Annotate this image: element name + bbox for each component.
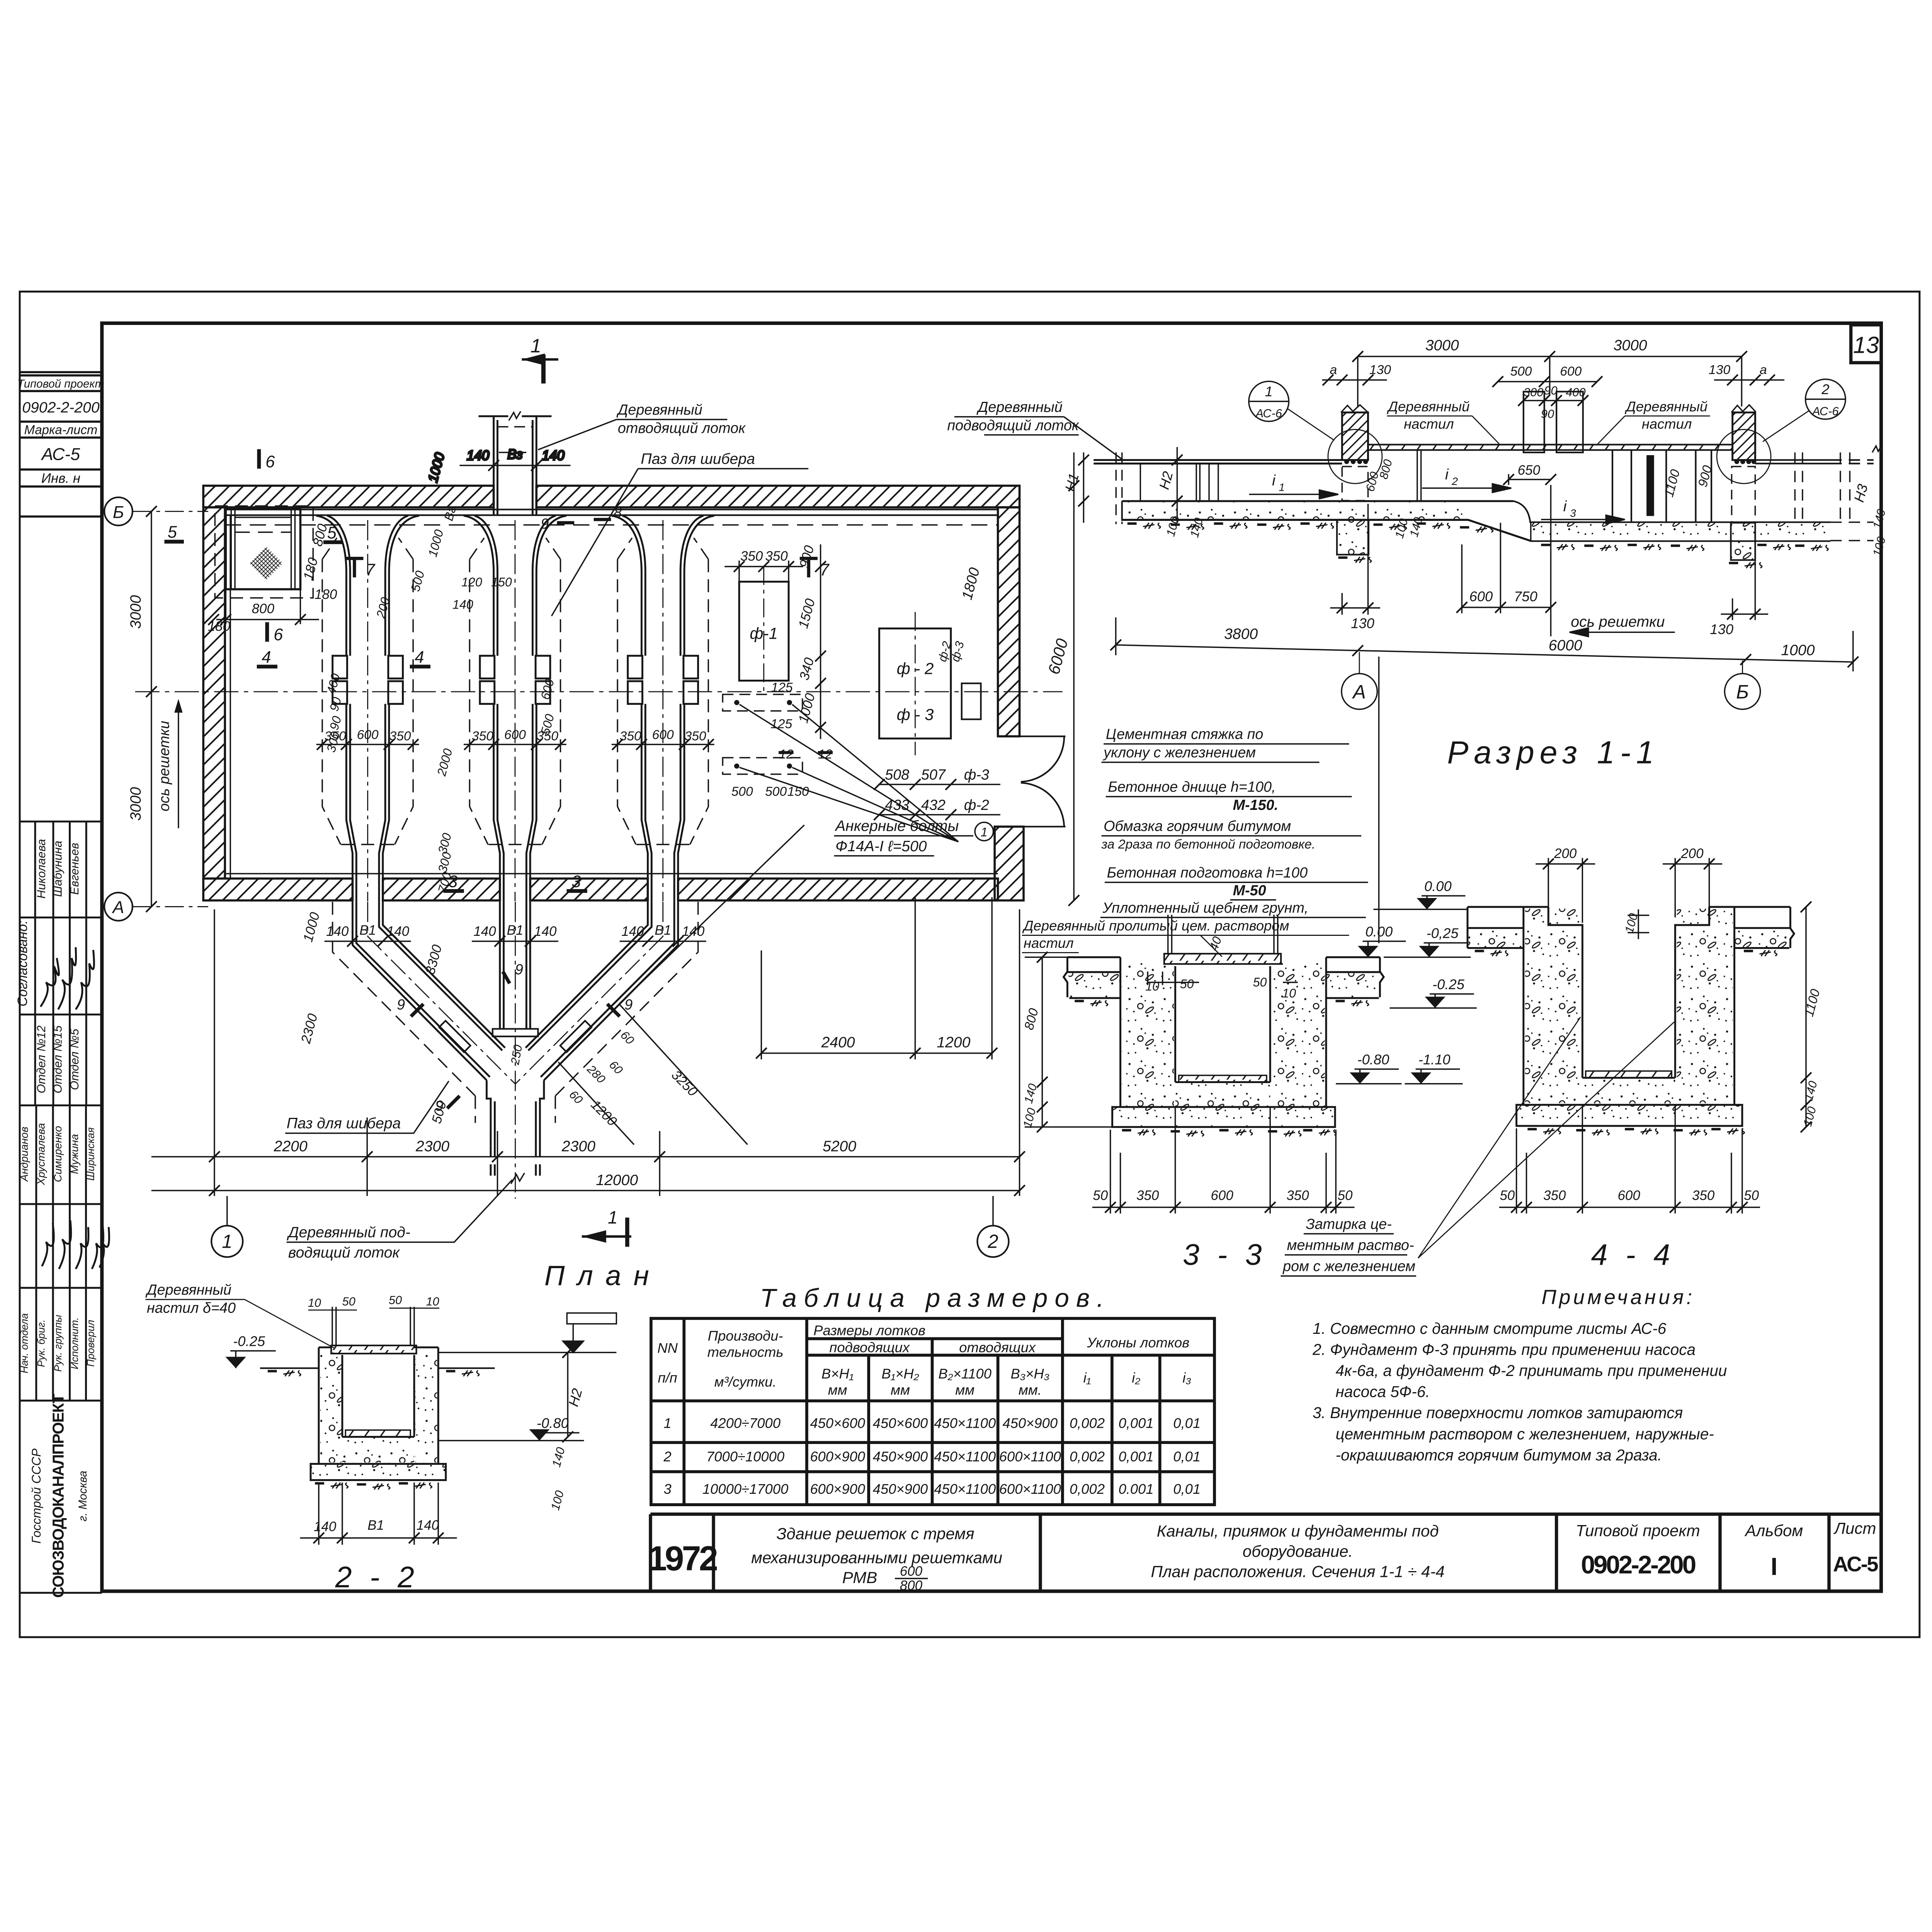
svg-text:i₂: i₂ [1132, 1370, 1140, 1386]
svg-text:0,001: 0,001 [1119, 1415, 1154, 1431]
circled 1 bottom left [211, 1196, 243, 1257]
floor screed [1582, 1077, 1675, 1079]
sidebar signature table (rotated) [20, 821, 102, 1593]
svg-text:600×1100: 600×1100 [999, 1481, 1061, 1497]
svg-text:140: 140 [621, 924, 644, 939]
callout 2/АС-6 [1763, 379, 1845, 442]
svg-text:Альбом: Альбом [1744, 1521, 1803, 1539]
svg-text:130: 130 [1710, 621, 1733, 637]
U walls [1121, 957, 1326, 1107]
svg-text:3. Внутренние поверхности: 3. Внутренние поверхности лотков затираю… [1313, 1404, 1683, 1422]
svg-text:450×900: 450×900 [1003, 1415, 1058, 1431]
svg-text:тельность: тельность [707, 1344, 784, 1360]
svg-text:6: 6 [274, 626, 283, 644]
Деревянный настил labels [1386, 399, 1710, 444]
svg-text:п/п: п/п [658, 1370, 677, 1386]
svg-text:650: 650 [1518, 463, 1541, 478]
floor screed [1175, 1081, 1270, 1083]
svg-text:подводящих: подводящих [829, 1340, 910, 1355]
svg-text:уклону с железнением: уклону с железнением [1102, 745, 1256, 761]
sidebar issuer block [29, 1394, 89, 1598]
svg-text:600: 600 [1560, 364, 1582, 379]
Деревянный пролитый label [1022, 918, 1349, 957]
svg-text:ментным раство-: ментным раство- [1287, 1237, 1414, 1253]
bottom wall segments [203, 879, 352, 901]
left arm outer wall [352, 902, 490, 1080]
bottom dimension chains [151, 909, 1020, 1196]
svg-text:12000: 12000 [596, 1172, 638, 1189]
svg-text:3: 3 [663, 1481, 671, 1497]
svg-text:1: 1 [222, 1231, 232, 1252]
right arm inner wall [526, 902, 651, 1051]
svg-text:450×1100: 450×1100 [934, 1415, 996, 1431]
svg-text:В1: В1 [655, 923, 671, 938]
svg-text:140: 140 [467, 448, 490, 463]
svg-text:мм: мм [955, 1382, 975, 1398]
svg-text:1: 1 [1265, 383, 1273, 399]
svg-text:3: 3 [1570, 507, 1576, 519]
svg-text:4: 4 [415, 648, 424, 667]
svg-text:7: 7 [366, 561, 376, 579]
svg-text:13: 13 [1853, 332, 1879, 358]
svg-text:9: 9 [541, 516, 549, 532]
Деревянный отводящий лоток label top [538, 402, 746, 450]
svg-text:Б: Б [1736, 681, 1749, 703]
svg-text:8: 8 [614, 505, 622, 521]
svg-text:Каналы, приямок и фундамент: Каналы, приямок и фундаменты под [1157, 1522, 1439, 1540]
svg-text:Деревянный: Деревянный [1624, 399, 1708, 415]
svg-text:600: 600 [1469, 588, 1493, 604]
svg-text:-0.25: -0.25 [1432, 976, 1465, 992]
svg-text:АС-5: АС-5 [1833, 1552, 1878, 1576]
bottom chain 2-2 [300, 1483, 457, 1545]
bottom chain 4-4 [1499, 1105, 1760, 1214]
svg-text:2200: 2200 [274, 1138, 308, 1155]
svg-text:В₁×Н₂: В₁×Н₂ [881, 1366, 919, 1381]
svg-text:0902-2-200: 0902-2-200 [1581, 1550, 1696, 1579]
подводящий лоток label left [947, 399, 1122, 459]
foundation F-1 [724, 561, 803, 696]
svg-text:Вз: Вз [507, 447, 523, 462]
door opening arcs in right wall [1020, 736, 1066, 827]
svg-text:9: 9 [435, 1098, 444, 1114]
svg-text:7: 7 [820, 561, 830, 579]
svg-text:450×900: 450×900 [873, 1481, 928, 1497]
svg-text:Ширинская: Ширинская [85, 1128, 96, 1181]
sidebar top stamp boxes [20, 372, 102, 517]
svg-text:Деревянный: Деревянный [145, 1282, 231, 1298]
notes block left of Разрез [1100, 726, 1368, 918]
inlet channel along top wall [225, 510, 998, 525]
wall pillar 2 [1717, 405, 1771, 560]
left approach channel [1094, 452, 1514, 524]
sheet number box 13 [1851, 325, 1881, 363]
svg-text:Николаева: Николаева [34, 839, 48, 898]
svg-text:450×1100: 450×1100 [934, 1449, 996, 1464]
svg-text:М-150.: М-150. [1233, 797, 1279, 813]
slab [1517, 1105, 1742, 1126]
ground lines [260, 1367, 495, 1369]
right wall corner piece [995, 827, 1024, 900]
svg-text:АС-6: АС-6 [1255, 406, 1282, 420]
svg-text:-0.80: -0.80 [1357, 1051, 1389, 1067]
svg-text:настил: настил [1642, 416, 1692, 432]
svg-text:350: 350 [685, 729, 706, 743]
svg-text:350: 350 [1543, 1188, 1566, 1203]
right arm outer wall [541, 902, 678, 1080]
Паз для шибера label (lower) [285, 1081, 449, 1133]
svg-text:7000÷10000: 7000÷10000 [706, 1449, 784, 1464]
svg-text:10: 10 [1282, 986, 1296, 1000]
svg-text:ф-2: ф-2 [964, 797, 989, 813]
bottom chain 3-3 [1092, 1107, 1355, 1213]
svg-text:Нач. отдела: Нач. отдела [19, 1313, 30, 1374]
concrete band under left channel [1122, 501, 1830, 541]
svg-text:0,01: 0,01 [1173, 1449, 1201, 1464]
misc small dims around channels [324, 505, 557, 894]
grate pit box top-left [215, 506, 313, 598]
svg-text:Бетонное днище h=100,: Бетонное днище h=100, [1108, 779, 1276, 795]
svg-text:125: 125 [771, 680, 793, 695]
svg-text:140: 140 [452, 597, 473, 611]
svg-text:Деревянный: Деревянный [1386, 399, 1469, 415]
svg-text:140: 140 [534, 924, 557, 939]
130 dims bottom [1330, 504, 1768, 620]
3-3 dims [1025, 952, 1298, 1132]
svg-text:50: 50 [1338, 1188, 1353, 1203]
svg-text:М-50: М-50 [1233, 883, 1266, 899]
svg-text:м³/сутки.: м³/сутки. [714, 1374, 777, 1389]
svg-text:2: 2 [1821, 381, 1829, 397]
svg-text:1: 1 [1279, 481, 1285, 493]
svg-text:0,01: 0,01 [1173, 1481, 1201, 1497]
perpendicular tick bars (section 9 marks) [411, 1004, 620, 1016]
svg-text:140: 140 [417, 1518, 439, 1533]
leader lines Затирка [1418, 1017, 1674, 1258]
500/600 and 300/90/400 dims [1492, 376, 1602, 406]
svg-text:Деревянный: Деревянный [616, 402, 702, 418]
svg-text:ось решетки: ось решетки [156, 721, 172, 811]
H2 dim right [562, 1347, 573, 1442]
axis circle Б left [104, 497, 208, 526]
svg-text:50: 50 [1093, 1188, 1108, 1203]
svg-text:Отдел №12: Отдел №12 [34, 1026, 48, 1094]
svg-text:3000: 3000 [128, 595, 144, 629]
svg-text:отводящих: отводящих [959, 1340, 1036, 1355]
svg-text:механизированными решетками: механизированными решетками [751, 1548, 1002, 1566]
svg-text:5200: 5200 [823, 1138, 856, 1155]
left arm inner wall [379, 902, 505, 1051]
svg-text:350: 350 [1286, 1188, 1309, 1203]
svg-text:Здание решеток с тремя: Здание решеток с тремя [777, 1525, 975, 1543]
dashed outer outline of funnel [333, 902, 698, 1096]
2-2 labels [145, 1282, 334, 1348]
svg-text:ром с железнением: ром с железнением [1282, 1259, 1415, 1275]
svg-text:подводящий лоток: подводящий лоток [947, 418, 1080, 434]
grate pit dims [208, 522, 337, 634]
svg-text:4 - 4: 4 - 4 [1591, 1238, 1675, 1272]
svg-text:а: а [1330, 363, 1337, 377]
svg-text:3800: 3800 [1224, 626, 1258, 643]
separator vertical line [1378, 656, 1380, 943]
svg-text:за 2раза по бетонной подготовк: за 2раза по бетонной подготовке. [1101, 837, 1316, 852]
svg-text:50: 50 [1500, 1188, 1515, 1203]
svg-text:Типовой проект: Типовой проект [17, 378, 104, 390]
svg-text:800: 800 [900, 1578, 923, 1593]
svg-text:Производи-: Производи- [708, 1328, 783, 1344]
svg-text:508: 508 [885, 767, 909, 783]
bottom dims 600/750 [1456, 485, 1556, 636]
Анкерные болты label [834, 818, 993, 856]
deck [331, 1345, 416, 1354]
svg-text:140: 140 [314, 1519, 337, 1534]
grand dim line [1111, 617, 1859, 672]
svg-text:1. Совместно с данным смо: 1. Совместно с данным смотрите листы АС-… [1313, 1320, 1667, 1337]
svg-text:оборудование.: оборудование. [1243, 1542, 1353, 1560]
grate posts above deck [1524, 392, 1583, 452]
svg-text:350: 350 [472, 729, 493, 743]
svg-text:50: 50 [1180, 977, 1194, 991]
svg-text:4200÷7000: 4200÷7000 [710, 1415, 781, 1431]
svg-text:600: 600 [1211, 1188, 1233, 1203]
svg-text:2: 2 [663, 1449, 671, 1464]
svg-text:0,002: 0,002 [1070, 1415, 1105, 1431]
funnel below plan [333, 902, 698, 1199]
svg-text:-0.80: -0.80 [537, 1415, 569, 1431]
svg-text:Евгеньев: Евгеньев [68, 843, 81, 895]
svg-text:50: 50 [342, 1294, 355, 1308]
right berm [1326, 957, 1384, 998]
svg-text:3000: 3000 [128, 787, 144, 821]
svg-text:отводящий лоток: отводящий лоток [618, 420, 746, 437]
svg-text:9: 9 [515, 961, 523, 978]
ось решетки label [1570, 614, 1675, 636]
main drawing frame [102, 323, 1881, 1591]
Паз для шибера label (upper) [551, 451, 808, 616]
svg-text:i: i [1445, 466, 1449, 483]
svg-text:Инв. н: Инв. н [41, 471, 80, 486]
cross bars at middle channel bottom [493, 1029, 538, 1037]
svg-text:Примечания:: Примечания: [1541, 1286, 1695, 1309]
svg-text:-0,25: -0,25 [1427, 925, 1459, 941]
slab [1112, 1107, 1335, 1127]
svg-text:0,002: 0,002 [1070, 1449, 1105, 1464]
wall pillar 1 [1328, 405, 1382, 555]
svg-text:10000÷17000: 10000÷17000 [702, 1481, 788, 1497]
svg-text:Типовой проект: Типовой проект [1576, 1521, 1700, 1539]
slab [311, 1464, 446, 1480]
Деревянный подводящий лоток label bottom [287, 1180, 512, 1261]
svg-text:3000: 3000 [1614, 337, 1647, 354]
svg-text:12: 12 [818, 747, 833, 762]
svg-text:I: I [1770, 1553, 1777, 1580]
svg-text:ф - 2: ф - 2 [897, 660, 934, 678]
svg-text:ф - 3: ф - 3 [897, 706, 934, 724]
svg-text:Отдел №5: Отдел №5 [68, 1029, 81, 1090]
svg-text:120: 120 [461, 575, 482, 589]
svg-text:12: 12 [779, 747, 794, 762]
svg-text:В1: В1 [359, 923, 376, 938]
svg-text:i₃: i₃ [1182, 1370, 1191, 1386]
svg-text:План расположения. Сечения: План расположения. Сечения 1-1 ÷ 4-4 [1151, 1563, 1444, 1581]
svg-text:600: 600 [504, 728, 526, 742]
funnel section marks 9 [397, 961, 633, 1114]
slanted shiber gates on arms [439, 1021, 470, 1052]
svg-text:2 - 2: 2 - 2 [335, 1561, 419, 1594]
svg-text:Уплотненный щебнем грунт,: Уплотненный щебнем грунт, [1102, 900, 1308, 916]
ось решетки vertical label [156, 701, 182, 828]
H dims left [1078, 447, 1182, 523]
funnel diagonal dim lines [558, 825, 804, 1145]
right outlet channel [1755, 446, 1881, 541]
650 dim [1503, 474, 1556, 485]
svg-text:2300: 2300 [561, 1138, 595, 1155]
svg-text:450×600: 450×600 [873, 1415, 928, 1431]
svg-text:1000: 1000 [1781, 642, 1815, 659]
svg-text:600: 600 [900, 1564, 923, 1579]
plan walls hatched: top wall [203, 486, 1024, 900]
svg-text:А: А [112, 898, 124, 917]
svg-text:130: 130 [1351, 616, 1374, 631]
0.00 marker right of 3-3 [1358, 923, 1406, 957]
svg-text:432: 432 [921, 797, 946, 813]
svg-text:мм.: мм. [1019, 1382, 1042, 1398]
plan 6000-dim extension vertical [1073, 452, 1075, 901]
svg-text:NN: NN [657, 1340, 678, 1356]
svg-text:В1: В1 [507, 923, 524, 938]
svg-text:Анкерные болты: Анкерные болты [835, 818, 959, 835]
svg-text:Шабунина: Шабунина [51, 841, 65, 897]
funnel labels [298, 910, 706, 1129]
svg-text:Отдел №15: Отдел №15 [51, 1025, 65, 1094]
svg-text:В1: В1 [367, 1518, 384, 1533]
svg-text:150: 150 [787, 785, 809, 799]
svg-text:Цементная стяжка по: Цементная стяжка по [1106, 726, 1264, 743]
svg-text:i: i [1272, 472, 1276, 489]
svg-text:1972: 1972 [648, 1539, 717, 1578]
svg-text:350: 350 [620, 729, 641, 743]
svg-text:СОЮЗВОДОКАНАЛПРОЕКТ: СОЮЗВОДОКАНАЛПРОЕКТ [49, 1394, 67, 1598]
svg-text:600: 600 [357, 728, 379, 742]
grass under bands [1128, 523, 1828, 551]
svg-text:Рук. бриг.: Рук. бриг. [35, 1320, 47, 1367]
svg-text:350: 350 [1692, 1188, 1715, 1203]
svg-text:Андрианов: Андрианов [18, 1127, 30, 1182]
svg-text:800: 800 [252, 601, 275, 616]
converging box and spout [486, 1080, 495, 1146]
4-4 dims [1536, 858, 1811, 1132]
svg-text:500: 500 [765, 785, 787, 799]
svg-text:6000: 6000 [1549, 637, 1582, 654]
deck on top [1164, 954, 1281, 964]
svg-text:200: 200 [1680, 846, 1704, 861]
middle channel continues down [500, 902, 530, 1028]
svg-text:50: 50 [1744, 1188, 1759, 1203]
svg-text:Паз для шибера: Паз для шибера [287, 1115, 401, 1132]
svg-text:Хрусталева: Хрусталева [35, 1123, 47, 1185]
svg-text:В₃×Н₃: В₃×Н₃ [1011, 1366, 1050, 1381]
svg-text:Разрез 1-1: Разрез 1-1 [1447, 735, 1659, 770]
svg-text:РМВ: РМВ [842, 1568, 877, 1587]
svg-text:Бетонная подготовка h=100: Бетонная подготовка h=100 [1107, 865, 1308, 881]
svg-text:450×900: 450×900 [873, 1449, 928, 1464]
U walls [319, 1347, 438, 1464]
svg-text:ф-3: ф-3 [964, 767, 989, 783]
svg-text:мм: мм [891, 1382, 910, 1398]
svg-text:-1.10: -1.10 [1418, 1051, 1451, 1067]
svg-text:50: 50 [389, 1293, 402, 1307]
svg-text:Проверил: Проверил [85, 1320, 96, 1367]
svg-text:Лист: Лист [1833, 1519, 1876, 1537]
sidebar signatures squiggles [41, 947, 109, 1269]
svg-text:а: а [1760, 363, 1767, 377]
svg-text:настил: настил [1404, 416, 1454, 432]
svg-text:4к-6а, а фундамент Ф-2 прин: 4к-6а, а фундамент Ф-2 принимать при при… [1335, 1362, 1727, 1379]
svg-text:9: 9 [624, 997, 633, 1013]
svg-text:Ф14А-I ℓ=500: Ф14А-I ℓ=500 [835, 838, 927, 855]
svg-text:140: 140 [326, 924, 349, 939]
Затирка label [1281, 1216, 1416, 1276]
svg-text:450×600: 450×600 [810, 1415, 865, 1431]
svg-text:125: 125 [770, 717, 792, 731]
svg-text:мм: мм [828, 1382, 847, 1398]
section mark 1 bottom with arrow [582, 1207, 631, 1247]
svg-text:150: 150 [491, 575, 512, 589]
svg-text:Рук. группы: Рук. группы [52, 1315, 64, 1372]
svg-text:Марка-лист: Марка-лист [24, 422, 98, 437]
svg-text:0.001: 0.001 [1119, 1481, 1154, 1497]
top 3000 dims [1352, 351, 1747, 406]
centerlines of arms [368, 902, 663, 1199]
svg-text:Симиренко: Симиренко [52, 1126, 64, 1182]
svg-text:2400: 2400 [821, 1034, 855, 1051]
svg-text:г. Москва: г. Москва [77, 1471, 89, 1521]
svg-text:0,01: 0,01 [1173, 1415, 1201, 1431]
svg-text:Деревянный пролитый цем. рас: Деревянный пролитый цем. раствором [1022, 918, 1289, 934]
svg-text:Исполнит.: Исполнит. [69, 1317, 80, 1369]
svg-text:3: 3 [571, 872, 581, 891]
svg-text:2: 2 [987, 1231, 998, 1252]
posts above deck [1168, 915, 1278, 954]
mini table 508/507 [874, 779, 1000, 820]
right wall upper [998, 507, 1020, 736]
svg-text:600×1100: 600×1100 [999, 1449, 1061, 1464]
svg-text:5: 5 [327, 524, 337, 542]
svg-text:5: 5 [168, 523, 177, 541]
svg-text:350: 350 [740, 549, 763, 564]
left wall [203, 507, 225, 879]
three channels [316, 516, 419, 902]
i labels with arrows [1249, 466, 1625, 524]
svg-text:180: 180 [315, 587, 337, 602]
svg-text:1: 1 [531, 335, 541, 357]
svg-text:цементным раствором с желез: цементным раствором с железнением, наруж… [1335, 1425, 1714, 1443]
svg-text:9: 9 [397, 997, 405, 1013]
svg-text:Деревянный под-: Деревянный под- [287, 1224, 410, 1241]
callout 1/АС-6 [1249, 381, 1334, 440]
svg-text:насоса 5Ф-6.: насоса 5Ф-6. [1335, 1383, 1430, 1401]
channel width labels [325, 728, 706, 743]
svg-text:507: 507 [921, 767, 946, 783]
svg-text:Размеры лотков: Размеры лотков [813, 1322, 925, 1338]
svg-text:750: 750 [1514, 588, 1537, 604]
axis circle А left [104, 893, 208, 921]
svg-text:водящий лоток: водящий лоток [288, 1245, 400, 1261]
svg-text:ф-1: ф-1 [750, 624, 777, 643]
svg-text:400: 400 [1566, 385, 1585, 399]
svg-text:Госстрой СССР: Госстрой СССР [29, 1448, 43, 1544]
svg-text:i₁: i₁ [1083, 1370, 1091, 1386]
